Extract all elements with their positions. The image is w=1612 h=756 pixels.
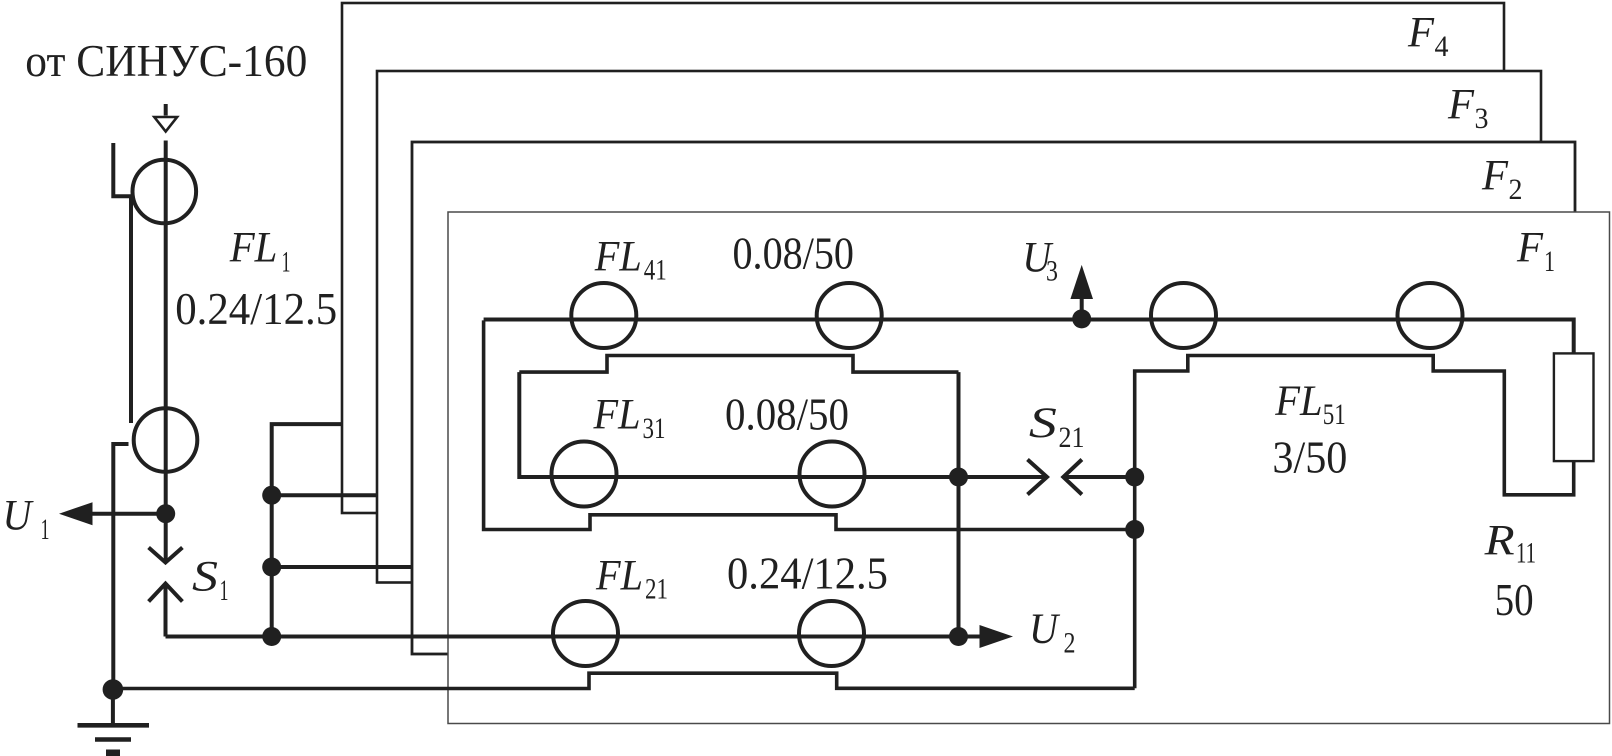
ferrite ring FL1 upper [133,160,197,224]
switch S1 (spark gap) [149,548,183,637]
node: S21 right junction [1125,468,1144,487]
node: bus tap FL21 [262,627,281,646]
svg-text:F: F [1447,82,1475,129]
svg-text:4: 4 [1435,30,1449,63]
label F1 [1516,225,1555,279]
svg-text:1: 1 [220,574,229,607]
ferrite ring FL41 A [571,283,636,348]
node: ground junction [103,679,124,700]
label U2 [1029,606,1076,659]
svg-text:3/50: 3/50 [1272,433,1347,483]
ferrite ring FL21 B [799,601,864,666]
svg-text:0.24/12.5: 0.24/12.5 [727,549,888,599]
frame F2 card [412,142,1575,654]
svg-text:0.08/50: 0.08/50 [725,390,849,440]
U2 arrow [959,625,1014,648]
svg-text:0.08/50: 0.08/50 [733,229,855,279]
input arrow (open triangle down) [154,104,177,132]
svg-text:3: 3 [1475,102,1489,135]
ground symbol [78,690,150,754]
svg-text:50: 50 [1495,575,1534,625]
node: FL31 return junction [1125,520,1144,539]
svg-text:F: F [1481,153,1509,200]
label U1 [3,493,50,546]
U3 arrow [1070,265,1093,319]
label FL41 [594,233,667,286]
ferrite ring FL51 B [1398,283,1463,348]
svg-text:R: R [1483,518,1514,565]
svg-text:S: S [192,554,218,601]
svg-text:21: 21 [645,573,668,606]
svg-text:FL: FL [595,553,643,600]
label FL51 [1274,378,1345,431]
svg-text:U: U [3,493,35,540]
wire: top main line FL41/FL51 [484,320,1574,354]
frame F3 card [377,71,1541,583]
wire: main vertical from source through FL1 to S1 [164,141,168,563]
frame F4 (back card) [342,3,1504,513]
svg-text:0.24/12.5: 0.24/12.5 [175,284,337,334]
node: U3 junction [1072,309,1091,328]
wire: FL51 return path from resistor to bus [1135,356,1574,689]
wire: grounding bus vertical with taps to frames [272,424,412,636]
label R11 [1483,518,1536,570]
svg-text:FL: FL [229,225,278,272]
resistor R11 [1554,353,1594,461]
node: U2 junction [949,627,968,646]
label F3 [1447,82,1488,136]
label FL31 [593,392,666,445]
wire: lower jog to ground leg [113,444,128,689]
svg-text:1: 1 [282,246,291,279]
label FL1 [229,225,291,279]
svg-text:11: 11 [1516,537,1536,570]
svg-text:FL: FL [1274,378,1322,425]
node: U1 junction [156,504,175,523]
node: S21 left junction [949,468,968,487]
label F4 [1407,10,1448,64]
ferrite ring FL1 lower [134,408,198,472]
svg-text:FL: FL [594,233,642,280]
wire: FL31 main line [519,372,958,477]
node: bus tap F3 [262,486,281,505]
wire: FL41 return path [519,356,958,373]
U1 arrow [59,502,166,525]
svg-text:41: 41 [644,254,667,287]
node: bus tap F2 [262,558,281,577]
wire: ground line and FL21 return path [113,673,1135,688]
svg-text:31: 31 [643,412,666,445]
label S1 [192,554,229,608]
label FL21 [595,553,668,606]
svg-text:S: S [1029,400,1057,447]
frame F1 card (thin) [448,212,1610,724]
ferrite ring FL51 A [1151,283,1216,348]
svg-text:1: 1 [41,513,50,546]
wire: FL21 main line from S1 to U2 [166,635,959,639]
label F2 [1481,153,1522,207]
wire: FL41/FL31/FL21 link vertical [957,372,961,636]
ferrite ring FL31 B [800,442,865,507]
ferrite ring FL31 A [552,442,617,507]
wire: left stub and return conductor [113,143,131,423]
svg-text:U: U [1029,606,1061,653]
switch S21 (spark gap horizontal) [959,460,1135,495]
svg-text:51: 51 [1323,398,1346,431]
label S21 [1029,400,1085,454]
svg-text:2: 2 [1509,173,1523,206]
svg-text:от СИНУС-160: от СИНУС-160 [25,36,307,86]
ferrite ring FL41 B [817,283,882,348]
svg-text:21: 21 [1059,421,1085,454]
svg-text:1: 1 [1544,245,1555,278]
wire: FL31 return path [484,320,1135,529]
svg-text:F: F [1516,225,1544,272]
svg-text:2: 2 [1064,626,1076,659]
label U3 [1022,234,1058,287]
svg-text:3: 3 [1046,254,1058,287]
svg-text:F: F [1407,10,1435,57]
ferrite ring FL21 A [553,601,618,666]
svg-text:FL: FL [593,392,641,439]
